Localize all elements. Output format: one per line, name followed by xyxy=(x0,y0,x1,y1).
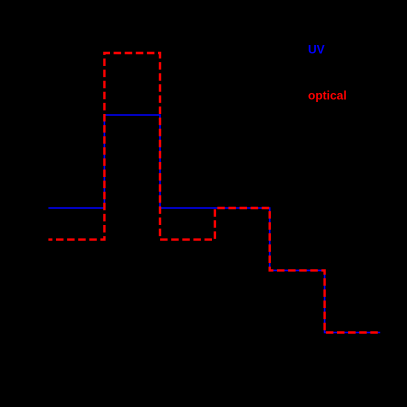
UV step line (blue solid) xyxy=(48,115,380,333)
svg-text:UV: UV xyxy=(308,43,325,57)
optical step line (red dashed) xyxy=(48,53,380,333)
svg-text:optical: optical xyxy=(308,89,347,103)
